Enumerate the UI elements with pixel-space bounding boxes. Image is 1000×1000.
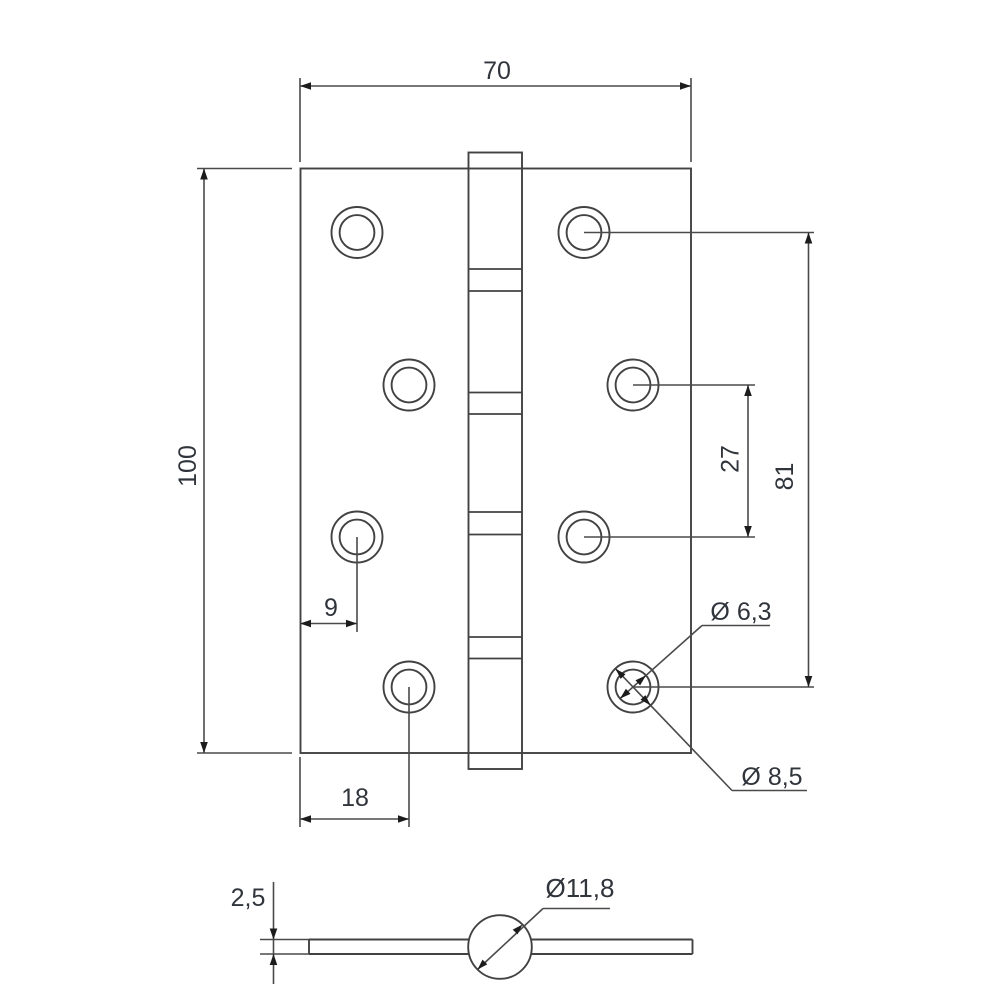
extension line from hole row3 right — [584, 536, 755, 538]
dimension 100 extension line bottom — [197, 752, 292, 754]
svg-text:100: 100 — [174, 445, 202, 487]
hinge knuckle barrel — [469, 153, 523, 770]
svg-text:Ø 8,5: Ø 8,5 — [741, 763, 802, 791]
dimension 100 arrow bottom — [200, 742, 208, 753]
leader 6,3 arrow upper-right — [636, 675, 647, 685]
dimension 100 extension line top — [197, 168, 292, 170]
svg-text:18: 18 — [341, 784, 369, 812]
dimension 27 arrow bottom — [744, 526, 752, 537]
knuckle bearing band 1 — [469, 269, 523, 291]
dimension 27 line — [747, 385, 749, 537]
svg-text:70: 70 — [483, 57, 511, 85]
screw hole row2 left — [384, 360, 435, 411]
svg-text:27: 27 — [717, 445, 745, 473]
side view left bar — [309, 940, 469, 955]
leader line diameter 8,5 — [732, 790, 807, 792]
dimension 70 extension line right — [690, 78, 692, 162]
screw hole row3 left — [332, 512, 383, 563]
diameter 11,8 arrow line through circle — [478, 909, 544, 970]
dimension 81 line — [808, 233, 810, 688]
dimension 9 arrow left — [300, 620, 311, 628]
svg-text:Ø11,8: Ø11,8 — [546, 873, 615, 903]
dimension 9 line — [300, 623, 357, 625]
diameter 11,8 leader underline — [543, 908, 610, 910]
dimension 18 arrow right — [398, 815, 409, 823]
svg-text:2,5: 2,5 — [231, 884, 266, 912]
knuckle bearing band 4 — [469, 637, 523, 659]
leader 6,3 arrow lower-left — [620, 689, 631, 699]
screw hole row2 right — [608, 360, 659, 411]
screw hole row1 right — [559, 207, 610, 258]
extension line from hole row1 right — [584, 232, 814, 234]
screw hole row4 right (countersunk, dimensioned) — [608, 662, 659, 713]
side view left extension lines for 2,5 — [260, 939, 309, 941]
dimension 2,5 line — [273, 882, 275, 984]
extension line from hole row2 right — [633, 384, 755, 386]
dimension 2,5 arrow bottom (pointing up) — [270, 954, 278, 965]
screw hole row4 left — [384, 662, 435, 713]
leader line diameter 6,3 — [702, 625, 770, 627]
dimension 81 arrow bottom — [805, 676, 813, 687]
dimension 18 line — [300, 818, 409, 820]
dimension 70 line — [300, 85, 691, 87]
dimension 18 arrow left — [300, 815, 311, 823]
dimension 9 arrow right — [346, 620, 357, 628]
extension line from hole row4 right — [633, 686, 814, 688]
knuckle bearing band 3 — [469, 512, 523, 535]
dimension 100 line — [203, 169, 205, 754]
extension line plate left edge extended below — [299, 757, 301, 827]
dimension 27 arrow top — [744, 385, 752, 396]
knuckle bearing band 2 — [469, 393, 523, 415]
leader 8,5 arrow lower-right — [641, 695, 651, 705]
screw hole row3 right — [559, 512, 610, 563]
svg-text:9: 9 — [324, 594, 338, 622]
dimension 70 extension line left — [299, 78, 301, 162]
hinge leaf plate outline — [301, 169, 692, 754]
dimension 70 arrow right — [680, 82, 691, 90]
leader 8,5 arrow upper-left — [615, 669, 625, 679]
dimension 81 arrow top — [805, 233, 813, 244]
svg-text:81: 81 — [771, 463, 799, 491]
screw hole row1 left — [332, 207, 383, 258]
svg-text:Ø 6,3: Ø 6,3 — [710, 598, 771, 626]
side view right bar — [531, 940, 692, 955]
dimension 100 arrow top — [200, 169, 208, 180]
dimension 2,5 arrow top (pointing down) — [270, 929, 278, 940]
side view barrel circle — [468, 915, 532, 979]
extension line from hole row3 left down — [356, 537, 358, 632]
dimension 70 arrow left — [300, 82, 311, 90]
extension line from hole row4 left down — [408, 687, 410, 827]
